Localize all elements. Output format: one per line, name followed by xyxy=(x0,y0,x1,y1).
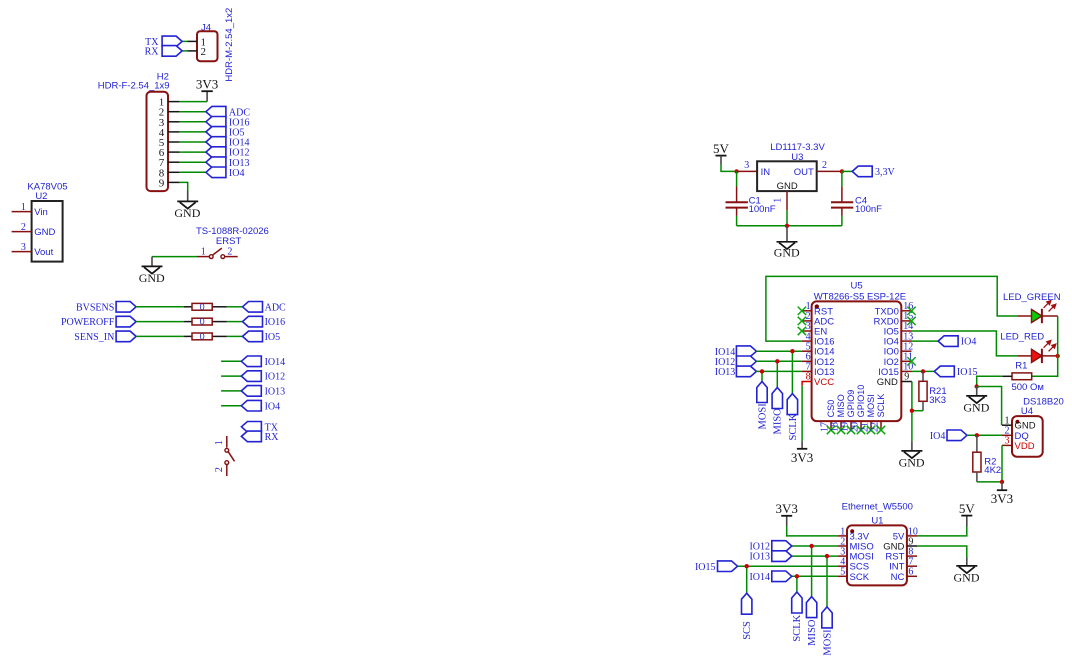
svg-text:SCK: SCK xyxy=(850,572,870,583)
svg-text:3V3: 3V3 xyxy=(791,450,813,465)
svg-text:GND: GND xyxy=(899,456,925,470)
svg-text:3: 3 xyxy=(744,160,749,171)
svg-text:IO4: IO4 xyxy=(961,337,977,348)
svg-text:GND: GND xyxy=(139,271,165,285)
svg-text:IO16: IO16 xyxy=(265,317,286,328)
svg-text:IO14: IO14 xyxy=(749,572,770,583)
svg-text:MOSI: MOSI xyxy=(757,403,768,430)
svg-text:3,3V: 3,3V xyxy=(875,167,896,178)
svg-text:IO4: IO4 xyxy=(229,168,245,179)
svg-text:2: 2 xyxy=(201,46,207,58)
svg-text:VCC: VCC xyxy=(814,377,834,388)
svg-text:2: 2 xyxy=(227,246,232,257)
svg-text:0: 0 xyxy=(200,331,205,341)
svg-text:CS0: CS0 xyxy=(826,400,836,418)
svg-text:IO15: IO15 xyxy=(695,562,716,573)
svg-text:3: 3 xyxy=(1005,436,1010,447)
svg-text:KA78V05: KA78V05 xyxy=(27,182,67,193)
svg-text:GPIO10: GPIO10 xyxy=(856,385,866,418)
svg-text:8: 8 xyxy=(806,372,811,383)
svg-text:GND: GND xyxy=(963,401,989,415)
svg-text:GPIO9: GPIO9 xyxy=(846,390,856,418)
svg-text:GND: GND xyxy=(34,227,55,238)
svg-text:GND: GND xyxy=(174,206,200,220)
svg-text:IO13: IO13 xyxy=(265,387,286,398)
svg-text:HDR-F-2.54_1x9: HDR-F-2.54_1x9 xyxy=(98,80,170,91)
svg-text:9: 9 xyxy=(904,372,909,383)
svg-text:3V3: 3V3 xyxy=(776,501,798,516)
svg-text:0: 0 xyxy=(200,317,205,327)
svg-text:2: 2 xyxy=(822,160,827,171)
svg-text:Vout: Vout xyxy=(34,247,53,258)
svg-text:NC: NC xyxy=(891,572,905,583)
svg-text:R1: R1 xyxy=(1015,360,1027,371)
svg-text:IO13: IO13 xyxy=(715,367,736,378)
svg-text:IO14: IO14 xyxy=(265,357,286,368)
svg-text:1: 1 xyxy=(21,202,26,213)
svg-text:U3: U3 xyxy=(791,152,803,163)
svg-text:0: 0 xyxy=(200,302,205,312)
svg-text:3V3: 3V3 xyxy=(991,491,1013,506)
svg-text:ADC: ADC xyxy=(265,302,286,313)
svg-text:OUT: OUT xyxy=(794,167,814,178)
svg-text:6: 6 xyxy=(908,567,913,578)
svg-text:IO4: IO4 xyxy=(930,431,946,442)
svg-text:MISO: MISO xyxy=(807,619,818,646)
svg-text:22: 22 xyxy=(869,422,880,432)
svg-text:GND: GND xyxy=(954,571,980,585)
svg-text:IO15: IO15 xyxy=(957,367,978,378)
svg-text:SCLK: SCLK xyxy=(792,614,803,641)
svg-text:MISO: MISO xyxy=(836,394,846,417)
svg-text:IO5: IO5 xyxy=(265,332,281,343)
svg-text:U5: U5 xyxy=(851,281,863,292)
svg-text:GND: GND xyxy=(777,181,798,192)
svg-text:IO4: IO4 xyxy=(265,401,281,412)
svg-text:VDD: VDD xyxy=(1015,441,1035,452)
svg-text:IN: IN xyxy=(761,167,771,178)
svg-text:HDR-M-2.54_1x2: HDR-M-2.54_1x2 xyxy=(224,8,235,82)
svg-text:MOSI: MOSI xyxy=(866,394,876,417)
svg-text:SCS: SCS xyxy=(742,621,753,640)
svg-text:SCLK: SCLK xyxy=(876,394,886,418)
svg-text:100nF: 100nF xyxy=(749,204,776,215)
svg-text:9: 9 xyxy=(159,177,165,189)
svg-text:Vin: Vin xyxy=(34,207,48,218)
svg-text:MOSI: MOSI xyxy=(822,629,833,656)
svg-text:3: 3 xyxy=(21,242,26,253)
svg-text:MISO: MISO xyxy=(773,408,784,435)
svg-text:100nF: 100nF xyxy=(855,204,882,215)
svg-text:2: 2 xyxy=(214,467,225,472)
svg-text:POWEROFF: POWEROFF xyxy=(61,317,115,328)
svg-text:2: 2 xyxy=(21,222,26,233)
svg-text:GND: GND xyxy=(883,542,904,553)
svg-text:1: 1 xyxy=(201,246,206,257)
svg-text:500 Ом: 500 Ом xyxy=(1011,382,1043,393)
svg-text:IO13: IO13 xyxy=(749,552,770,563)
svg-text:SENS_IN: SENS_IN xyxy=(74,332,114,343)
svg-text:5: 5 xyxy=(840,567,845,578)
svg-text:Ethernet_W5500: Ethernet_W5500 xyxy=(842,502,913,513)
svg-text:LED_RED: LED_RED xyxy=(1000,332,1044,343)
svg-text:GND: GND xyxy=(877,377,898,388)
svg-text:1: 1 xyxy=(214,440,225,445)
svg-text:IO12: IO12 xyxy=(265,372,286,383)
svg-text:BVSENS: BVSENS xyxy=(76,302,114,313)
svg-text:GND: GND xyxy=(774,246,800,260)
svg-text:5V: 5V xyxy=(959,501,976,516)
svg-text:1: 1 xyxy=(772,198,783,203)
svg-text:3V3: 3V3 xyxy=(196,76,218,91)
svg-text:5V: 5V xyxy=(713,141,730,156)
svg-text:RX: RX xyxy=(145,47,160,58)
svg-text:4K2: 4K2 xyxy=(984,465,1001,476)
svg-text:RX: RX xyxy=(265,432,280,443)
svg-text:LED_GREEN: LED_GREEN xyxy=(1003,292,1061,303)
svg-text:SCLK: SCLK xyxy=(788,413,799,440)
svg-text:3K3: 3K3 xyxy=(929,395,946,406)
